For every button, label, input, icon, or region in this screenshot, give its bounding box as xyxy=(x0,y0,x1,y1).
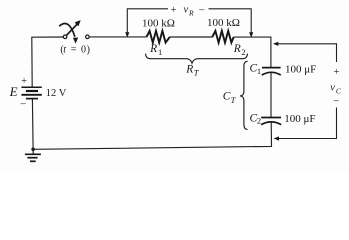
vC top arrowhead xyxy=(273,42,278,46)
svg-text:1: 1 xyxy=(158,47,162,57)
svg-text:–: – xyxy=(198,5,205,16)
svg-text:E: E xyxy=(9,84,18,99)
vC bottom arrowhead xyxy=(274,136,279,140)
vR bracket left: vertical line with down arrow xyxy=(127,9,168,33)
switch closing arc arrowhead xyxy=(73,38,78,44)
svg-text:R: R xyxy=(188,9,194,18)
svg-text:+: + xyxy=(171,5,177,16)
wire: rail C1 to C2 xyxy=(270,73,272,118)
ground bar 1 xyxy=(25,153,41,155)
capacitor C2 top plate xyxy=(261,117,281,119)
capacitor C1 bottom curved plate xyxy=(262,72,281,75)
resistor R1 xyxy=(147,31,170,43)
switch right terminal xyxy=(86,35,90,39)
ground bar 3 xyxy=(30,160,36,162)
battery E plate 4 (short) xyxy=(26,98,38,100)
vR bracket right: horizontal + vertical with down arrow xyxy=(209,9,252,33)
svg-text:–: – xyxy=(20,99,27,110)
ground bar 2 xyxy=(27,157,37,159)
svg-text:v: v xyxy=(330,83,335,94)
CT brace xyxy=(240,61,248,129)
underbrace RT xyxy=(146,54,248,64)
svg-text:R: R xyxy=(149,43,157,55)
switch closing arc xyxy=(59,23,75,36)
svg-text:C: C xyxy=(223,91,231,103)
vC bracket top: arrow at rail, horizontal line, corner, vertical stub xyxy=(278,44,337,62)
svg-text:100 kΩ: 100 kΩ xyxy=(142,17,175,29)
wire: left rail bottom (battery minus to bottom wire) xyxy=(31,99,34,150)
svg-text:(t=0): (t=0) xyxy=(60,45,90,56)
wire: R2 to top-right corner and right rail down to C1 xyxy=(234,37,271,67)
svg-text:+: + xyxy=(21,76,27,87)
switch left terminal xyxy=(63,35,67,39)
switch blade xyxy=(67,23,78,35)
svg-text:100 kΩ: 100 kΩ xyxy=(207,17,240,29)
wire: switch to R1 xyxy=(89,36,146,38)
svg-text:–: – xyxy=(333,95,340,106)
wire: rail below C2, bottom-right corner, bottom wire xyxy=(33,122,271,150)
svg-text:T: T xyxy=(231,95,237,105)
svg-text:1: 1 xyxy=(257,66,261,76)
ground stub xyxy=(32,149,34,154)
svg-text:100 μF: 100 μF xyxy=(285,63,316,75)
wire: left rail top + top wire to switch xyxy=(32,37,64,88)
battery E plate 1 (long) xyxy=(21,86,41,88)
battery E plate 3 (long) xyxy=(21,94,41,96)
svg-text:R: R xyxy=(233,43,241,55)
svg-text:2: 2 xyxy=(241,47,245,57)
svg-text:C: C xyxy=(336,87,342,96)
resistor R2 xyxy=(212,31,233,43)
svg-text:12 V: 12 V xyxy=(46,88,67,99)
svg-text:R: R xyxy=(185,63,193,75)
battery E plate 2 (short) xyxy=(26,90,38,92)
svg-text:100 μF: 100 μF xyxy=(284,113,315,125)
switch blade arrowhead xyxy=(75,20,81,26)
vR right arrowhead xyxy=(249,32,253,37)
svg-text:v: v xyxy=(184,5,189,16)
vC bracket bottom: vertical stub, corner, horizontal line, arrow at rail xyxy=(278,108,336,139)
vR left arrowhead xyxy=(125,32,129,37)
capacitor C1 top plate xyxy=(262,67,281,69)
junction node dot xyxy=(31,148,35,152)
wire: R1 to R2 xyxy=(170,36,213,38)
svg-text:+: + xyxy=(334,67,340,78)
capacitor C2 bottom curved plate xyxy=(261,122,281,125)
svg-text:T: T xyxy=(194,68,200,78)
svg-text:2: 2 xyxy=(257,116,261,126)
